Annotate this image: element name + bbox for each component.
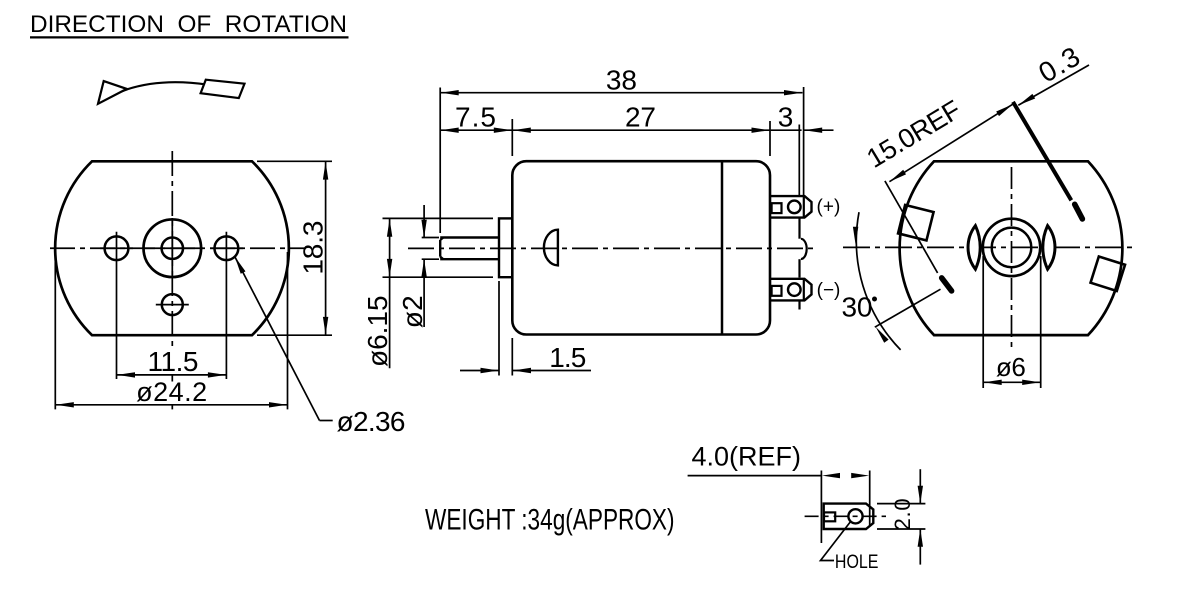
side view shaft bbox=[440, 238, 499, 260]
dimension 0.3 bbox=[1018, 41, 1089, 106]
side view brush dome bbox=[544, 230, 558, 266]
detail terminal slot bbox=[824, 512, 835, 521]
left view shaft hole circle bbox=[162, 238, 183, 259]
dimension 38 bbox=[440, 65, 803, 233]
side view bushing bbox=[499, 218, 512, 277]
svg-text:11.5: 11.5 bbox=[148, 346, 199, 377]
left view vertical centerline bbox=[171, 151, 173, 350]
svg-text:27: 27 bbox=[625, 102, 656, 133]
right mounting hole bbox=[215, 236, 239, 260]
lower-right vent square bbox=[1091, 256, 1125, 290]
rear boss inner circle bbox=[992, 228, 1032, 268]
dimension 3 bbox=[771, 102, 834, 133]
terminal edge-on upper bbox=[1013, 102, 1071, 200]
dimension 11.5 bbox=[117, 346, 227, 378]
svg-text:4.0(REF): 4.0(REF) bbox=[692, 442, 802, 472]
left crescent bbox=[968, 226, 980, 270]
terminal plus (side view) bbox=[771, 196, 812, 218]
dimension 2.0 bbox=[877, 469, 925, 564]
svg-text:7.5: 7.5 bbox=[455, 102, 496, 133]
dimension 27 bbox=[512, 102, 770, 157]
side view body outline bbox=[512, 161, 770, 334]
terminal edge-on lower stub bbox=[942, 278, 952, 291]
leader ø2.36 bbox=[235, 257, 406, 437]
svg-text:3: 3 bbox=[778, 102, 794, 133]
15.0REF extension line bbox=[885, 181, 938, 273]
svg-text:WEIGHT :34g(APPROX): WEIGHT :34g(APPROX) bbox=[425, 502, 675, 536]
svg-text:30: 30 bbox=[842, 291, 873, 322]
dimension ø2 bbox=[397, 205, 439, 328]
rear bearing bump bbox=[801, 239, 807, 259]
upper-left vent square bbox=[898, 205, 934, 241]
terminal minus (side view) bbox=[771, 279, 812, 301]
svg-text:DIRECTION OF ROTATION: DIRECTION OF ROTATION bbox=[30, 11, 347, 38]
svg-text:(−): (−) bbox=[817, 280, 841, 301]
rotation arrow head triangle bbox=[98, 81, 127, 104]
rear view motor outline bbox=[900, 161, 1123, 335]
svg-text:38: 38 bbox=[606, 65, 637, 96]
rear view vertical centerline bbox=[1011, 167, 1013, 348]
rotation arrow arc bbox=[100, 82, 242, 102]
left mounting hole bbox=[105, 236, 129, 260]
svg-text:ø2.36: ø2.36 bbox=[337, 406, 406, 437]
bottom small hole bbox=[162, 294, 183, 315]
svg-text:1.5: 1.5 bbox=[549, 342, 586, 373]
svg-text:2.0: 2.0 bbox=[890, 498, 915, 530]
dimension 15.0REF bbox=[862, 94, 1013, 181]
dimension ø6 bbox=[983, 256, 1040, 388]
detail terminal outline bbox=[824, 504, 874, 529]
left view bearing boss circle bbox=[144, 219, 202, 277]
side view centerline bbox=[408, 247, 818, 249]
rotation arrow tail flag bbox=[201, 80, 245, 98]
svg-text:ø6.15: ø6.15 bbox=[362, 295, 393, 367]
rear face lines bbox=[798, 218, 800, 310]
terminal edge-on upper stub bbox=[1075, 204, 1083, 219]
dimension ø24.2 bbox=[55, 252, 287, 409]
left view horizontal centerline bbox=[50, 247, 306, 249]
dimension ø6.15 bbox=[362, 218, 493, 368]
dimension 1.5 bbox=[460, 281, 591, 376]
rear view horizontal centerline bbox=[843, 246, 1136, 248]
HOLE label and leader bbox=[821, 521, 879, 572]
right crescent bbox=[1043, 226, 1055, 270]
rear boss outer circle bbox=[983, 219, 1040, 276]
dimension 18.3 bbox=[257, 161, 332, 335]
svg-text:(+): (+) bbox=[817, 197, 841, 218]
svg-text:18.3: 18.3 bbox=[298, 221, 329, 275]
detail dimension 4.0(REF) bbox=[688, 442, 870, 543]
svg-text:ø6: ø6 bbox=[996, 352, 1026, 382]
svg-text:ø2: ø2 bbox=[397, 295, 428, 328]
title DIRECTION OF ROTATION bbox=[30, 11, 349, 38]
detail centerline bbox=[805, 515, 886, 517]
dimension 30 degrees arc bbox=[842, 212, 941, 350]
dimension 7.5 bbox=[440, 102, 512, 157]
side view endcap seam bbox=[721, 161, 724, 334]
svg-text:HOLE: HOLE bbox=[835, 551, 879, 573]
svg-text:ø24.2: ø24.2 bbox=[136, 377, 207, 407]
left view center solid cross bbox=[142, 247, 203, 249]
detail terminal hole bbox=[848, 509, 862, 523]
left view motor outline bbox=[55, 161, 289, 335]
